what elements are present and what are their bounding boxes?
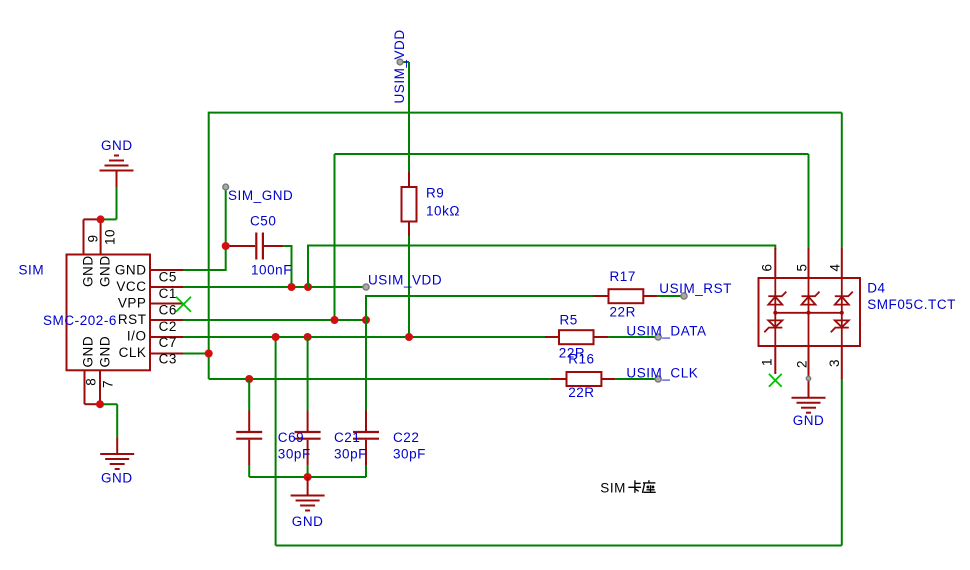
svg-text:6: 6 (759, 263, 774, 271)
svg-text:C22: C22 (393, 430, 419, 445)
svg-text:GND: GND (101, 138, 133, 153)
svg-text:R9: R9 (426, 185, 444, 200)
svg-text:USIM_VDD: USIM_VDD (392, 29, 407, 103)
svg-text:GND: GND (793, 413, 825, 428)
svg-text:USIM_RST: USIM_RST (659, 281, 732, 296)
svg-text:30pF: 30pF (278, 447, 311, 462)
svg-text:C2: C2 (159, 319, 177, 334)
svg-text:4: 4 (828, 263, 843, 271)
svg-text:30pF: 30pF (334, 447, 367, 462)
svg-text:SIM_GND: SIM_GND (228, 188, 293, 203)
svg-text:8: 8 (83, 378, 98, 386)
svg-text:2: 2 (794, 360, 809, 368)
svg-text:C1: C1 (159, 286, 177, 301)
svg-text:C69: C69 (278, 430, 304, 445)
svg-text:USIM_VDD: USIM_VDD (368, 272, 442, 287)
svg-text:9: 9 (85, 234, 100, 242)
svg-text:USIM_DATA: USIM_DATA (626, 323, 706, 338)
svg-text:USIM_CLK: USIM_CLK (626, 365, 698, 380)
svg-text:GND: GND (98, 255, 113, 287)
svg-text:C21: C21 (334, 430, 360, 445)
svg-text:22R: 22R (568, 385, 594, 400)
svg-text:3: 3 (827, 359, 842, 367)
svg-text:5: 5 (794, 263, 809, 271)
svg-text:CLK: CLK (119, 345, 147, 360)
svg-text:I/O: I/O (127, 329, 147, 344)
svg-text:22R: 22R (610, 304, 636, 319)
svg-text:GND: GND (115, 263, 147, 278)
svg-text:1: 1 (759, 358, 774, 366)
svg-text:10: 10 (102, 229, 117, 245)
svg-text:R5: R5 (560, 313, 578, 328)
svg-text:RST: RST (118, 312, 147, 327)
svg-text:GND: GND (292, 514, 324, 529)
svg-text:30pF: 30pF (393, 447, 426, 462)
svg-text:GND: GND (81, 336, 96, 368)
svg-text:SMF05C.TCT: SMF05C.TCT (867, 297, 956, 312)
svg-text:SIM: SIM (19, 262, 45, 277)
svg-text:10kΩ: 10kΩ (426, 203, 460, 218)
svg-text:VPP: VPP (118, 296, 147, 311)
svg-text:GND: GND (101, 471, 133, 486)
svg-text:R16: R16 (568, 352, 594, 367)
svg-text:C7: C7 (159, 335, 177, 350)
svg-text:C6: C6 (159, 302, 177, 317)
svg-text:D4: D4 (867, 280, 885, 295)
svg-text:SIM: SIM (600, 480, 626, 495)
svg-text:VCC: VCC (116, 279, 146, 294)
svg-text:C3: C3 (159, 352, 177, 367)
svg-text:GND: GND (81, 255, 96, 287)
svg-text:SMC-202-6: SMC-202-6 (43, 313, 117, 328)
svg-text:100nF: 100nF (251, 263, 292, 278)
svg-text:C5: C5 (159, 269, 177, 284)
svg-text:7: 7 (101, 380, 116, 388)
svg-text:GND: GND (98, 336, 113, 368)
svg-text:C50: C50 (250, 214, 276, 229)
svg-text:R17: R17 (610, 269, 636, 284)
